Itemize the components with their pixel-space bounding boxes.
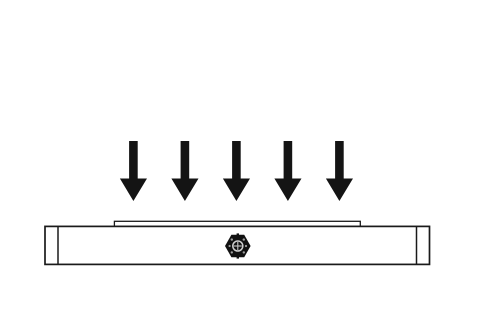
bolt facet speck NE	[243, 238, 245, 240]
bolt top bump	[237, 233, 239, 235]
bolt facet speck SW	[231, 251, 233, 253]
bolt facet speck NW	[231, 238, 233, 240]
bolt facet speck E	[245, 245, 247, 247]
distributed load arrow 3	[223, 141, 250, 201]
beam body	[45, 226, 430, 264]
bolt facet speck SE	[243, 251, 245, 253]
distributed load arrow 4	[274, 141, 301, 201]
distributed load arrow 1	[120, 141, 147, 201]
bolt cross horizontal	[234, 245, 242, 247]
beam left end line	[57, 226, 59, 264]
bolt cross vertical	[237, 242, 239, 250]
beam right end line	[416, 226, 418, 264]
bolt facet speck W	[229, 245, 231, 247]
distributed load arrow 5	[326, 141, 353, 201]
bolt head hexagon	[225, 235, 251, 257]
bolt bottom bump	[237, 257, 239, 259]
top plate	[114, 221, 360, 226]
bolt washer circle	[233, 241, 243, 251]
distributed load arrow 2	[171, 141, 198, 201]
